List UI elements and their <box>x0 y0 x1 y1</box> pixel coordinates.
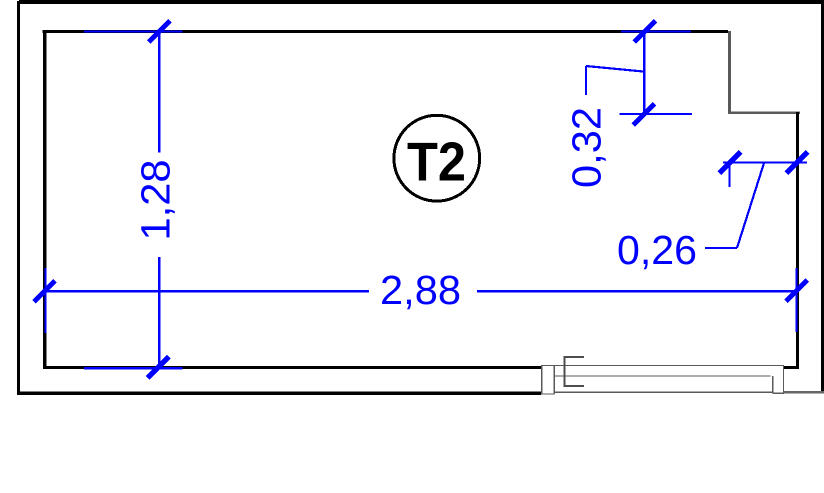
0,32 bottom tick <box>633 104 654 125</box>
window white body <box>541 365 784 395</box>
inner bottom wall line <box>43 366 541 369</box>
svg-text:2,88: 2,88 <box>380 267 461 313</box>
1,28 extension line on inner bottom wall <box>84 367 183 369</box>
outer left wall <box>17 1 20 395</box>
1,28 top tick <box>149 21 170 42</box>
0,32 top tick <box>634 21 655 42</box>
right wall <box>796 112 799 369</box>
svg-text:T2: T2 <box>407 130 466 192</box>
2,88 extension line on left wall <box>44 268 46 333</box>
top wall line <box>43 30 729 33</box>
1,28 dimension line lower segment <box>158 257 160 368</box>
0,32 lower reference line <box>619 113 692 115</box>
0,26 leader diagonal <box>737 163 764 248</box>
0,26 dimension line <box>723 161 807 163</box>
2,88 right tick <box>786 280 807 301</box>
2,88 dimension line left segment <box>46 290 369 292</box>
1,28 dimension line upper segment <box>158 31 160 153</box>
0,26 leader horizontal <box>705 247 737 249</box>
outer bottom wall <box>17 391 541 395</box>
svg-text:0,26: 0,26 <box>617 227 697 273</box>
step wall horizontal (gray) <box>728 111 800 114</box>
door frame mark (gray bracket) <box>564 357 585 387</box>
2,88 dimension line right segment <box>477 290 797 292</box>
gray floor cut line right of window <box>784 391 824 394</box>
svg-text:0,32: 0,32 <box>564 107 610 188</box>
dimension 0,32 <box>586 31 692 114</box>
dimension 0,26 <box>705 163 807 249</box>
top viewport cut wall <box>19 0 824 4</box>
0,32 leader arm <box>586 66 643 72</box>
2,88 extension line on right wall <box>795 268 797 332</box>
step wall vertical (gray) <box>728 31 731 114</box>
0,26 extension line below left tick <box>728 163 730 187</box>
T2 room badge circle <box>394 115 480 201</box>
2,88 left tick <box>34 281 55 302</box>
1,28 bottom tick <box>148 357 169 378</box>
0,26 left tick <box>719 152 740 173</box>
0,26 right tick <box>786 152 807 173</box>
dimension 2,88 <box>45 268 797 333</box>
window outline gray <box>541 365 784 394</box>
0,32 dimension line <box>643 31 645 114</box>
inner left wall <box>43 30 46 369</box>
0,32 extension line on top wall <box>621 31 691 33</box>
dimension 1,28 <box>84 31 183 368</box>
right wall foot <box>784 366 799 369</box>
right viewport cut wall <box>821 0 824 392</box>
svg-text:1,28: 1,28 <box>133 160 179 241</box>
0,32 leader riser <box>585 66 587 95</box>
1,28 extension line on top wall <box>84 30 183 32</box>
